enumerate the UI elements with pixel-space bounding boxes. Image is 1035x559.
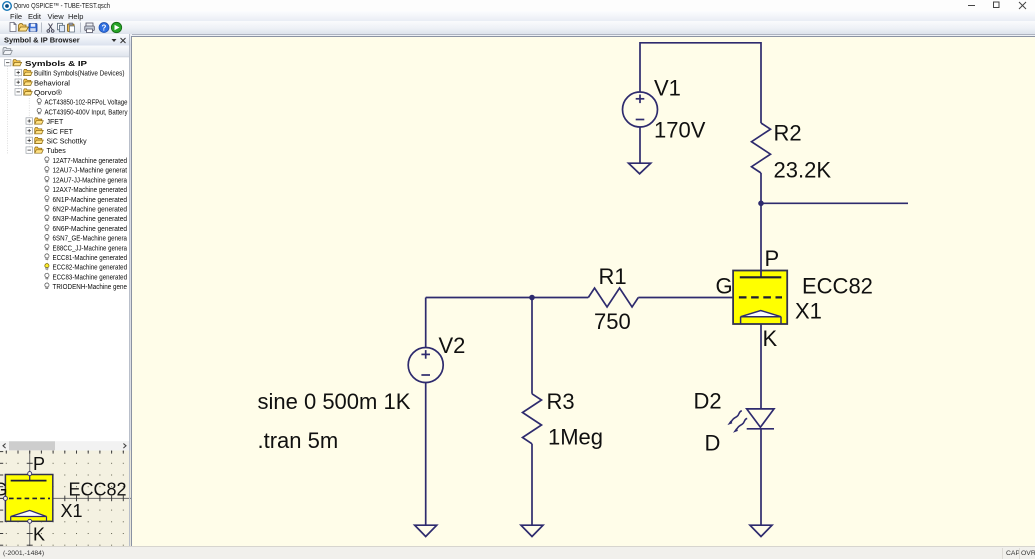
svg-text:23.2K: 23.2K [774, 158, 832, 183]
svg-text:12AU7-JJ-Machine genera: 12AU7-JJ-Machine genera [53, 177, 128, 184]
svg-text:Qorvo®: Qorvo® [34, 89, 63, 97]
svg-text:P: P [765, 246, 780, 271]
svg-text:ACT43950-400V Input, Battery: ACT43950-400V Input, Battery [45, 109, 128, 116]
svg-text:E88CC_JJ-Machine genera: E88CC_JJ-Machine genera [53, 245, 128, 252]
svg-text:Builtin Symbols(Native Devices: Builtin Symbols(Native Devices) [34, 71, 125, 78]
wire R2 bottom to node [760, 173, 762, 203]
wire top from V1 to R2 [640, 43, 761, 123]
svg-text:ECC81-Machine generated: ECC81-Machine generated [53, 255, 128, 262]
svg-text:6N2P-Machine generated: 6N2P-Machine generated [53, 207, 128, 214]
svg-text:SiC FET: SiC FET [47, 129, 74, 136]
svg-text:X1: X1 [61, 501, 83, 521]
svg-text:ECC82-Machine generated: ECC82-Machine generated [53, 265, 128, 272]
D2 heater squiggle arrows [731, 411, 747, 430]
wire node to right stub [761, 202, 908, 204]
svg-text:170V: 170V [654, 118, 706, 143]
tree background [0, 57, 129, 441]
wire node to V2 top [426, 297, 532, 299]
svg-text:Qorvo QSPICE™ - TUBE-TEST.qsch: Qorvo QSPICE™ - TUBE-TEST.qsch [14, 1, 111, 10]
wire D2 to ground [760, 429, 762, 525]
toolbar [0, 21, 1035, 35]
svg-text:ECC82: ECC82 [802, 274, 873, 299]
wire V2 top lead [425, 298, 427, 348]
svg-text:R2: R2 [774, 121, 802, 146]
svg-text:SiC Schottky: SiC Schottky [47, 139, 88, 146]
svg-text:TRIODENH-Machine gene: TRIODENH-Machine gene [53, 284, 128, 291]
preview axes [0, 451, 131, 547]
left dock panel [0, 34, 132, 546]
svg-text:K: K [33, 525, 45, 545]
svg-text:12AX7-Machine generated: 12AX7-Machine generated [53, 187, 128, 194]
svg-text:12AT7-Machine generated: 12AT7-Machine generated [53, 158, 128, 165]
svg-text:P: P [33, 454, 45, 474]
wire R3 top lead [531, 298, 533, 394]
preview tube symbol [3, 472, 52, 524]
svg-text:6N1P-Machine generated: 6N1P-Machine generated [53, 197, 128, 204]
svg-text:ECC82: ECC82 [69, 480, 127, 500]
sub toolbar [0, 46, 131, 58]
diode D2 [747, 409, 774, 429]
svg-text:JFET: JFET [47, 119, 64, 126]
svg-text:6SN7_GE-Machine genera: 6SN7_GE-Machine genera [53, 236, 128, 243]
svg-text:K: K [763, 326, 778, 351]
ground below D2 [750, 525, 772, 536]
preview pane [0, 451, 131, 547]
resistor R1 [588, 288, 638, 307]
svg-text:D2: D2 [694, 389, 722, 414]
panel background [0, 34, 132, 546]
wire tube cathode pin K to diode D2 [760, 324, 762, 409]
svg-text:ECC83-Machine generated: ECC83-Machine generated [53, 274, 128, 281]
status bar [0, 546, 1035, 559]
svg-text:Tubes: Tubes [47, 148, 67, 155]
svg-text:6N3P-Machine generated: 6N3P-Machine generated [53, 216, 128, 223]
wire node down to tube plate pin P [760, 203, 762, 277]
node junction V2/R1/R3 [529, 295, 535, 301]
svg-text:?: ? [102, 23, 107, 32]
ground below R3 [521, 525, 543, 536]
svg-text:D: D [705, 431, 721, 456]
svg-text:Behavioral: Behavioral [34, 80, 70, 87]
svg-text:V2: V2 [439, 333, 466, 358]
svg-text:sine 0 500m 1K: sine 0 500m 1K [258, 389, 411, 414]
svg-text:750: 750 [594, 309, 631, 334]
svg-text:R3: R3 [547, 389, 575, 414]
menu bar [0, 11, 1035, 21]
wire R1 to node [532, 297, 588, 299]
svg-text:Symbol & IP Browser: Symbol & IP Browser [4, 36, 80, 45]
svg-text:12AU7-J-Machine generat: 12AU7-J-Machine generat [53, 168, 128, 175]
voltage source V1 [623, 92, 658, 127]
svg-text:G: G [0, 480, 8, 500]
svg-text:R1: R1 [599, 264, 627, 289]
svg-text:V1: V1 [654, 76, 681, 101]
svg-text:.tran 5m: .tran 5m [258, 428, 339, 453]
schematic canvas [131, 36, 1035, 546]
horizontal scrollbar of tree [0, 441, 129, 450]
wire tube grid pin G to R1 [638, 297, 733, 299]
svg-text:1Meg: 1Meg [548, 424, 603, 449]
voltage source V2 [408, 348, 443, 383]
triode X1 ECC82 [733, 270, 787, 324]
svg-text:Symbols & IP: Symbols & IP [25, 61, 87, 68]
resistor R2 [752, 123, 771, 173]
wire R3 bottom to ground [531, 444, 533, 525]
resistor R3 [523, 394, 542, 444]
svg-text:6N6P-Machine generated: 6N6P-Machine generated [53, 226, 128, 233]
svg-text:X1: X1 [795, 299, 822, 324]
title bar [0, 0, 1035, 11]
svg-text:G: G [716, 274, 733, 299]
ground below V2 [415, 525, 437, 536]
node junction R2/stub/plate [758, 201, 764, 207]
panel header [0, 34, 131, 46]
wire V2 bottom to ground [425, 383, 427, 526]
ground below V1 [629, 163, 651, 174]
wire V1 bottom to ground [639, 127, 641, 163]
svg-text:ACT43850-102-RFPoL Voltage: ACT43850-102-RFPoL Voltage [45, 100, 128, 107]
panel/schematic divider [129, 34, 130, 546]
